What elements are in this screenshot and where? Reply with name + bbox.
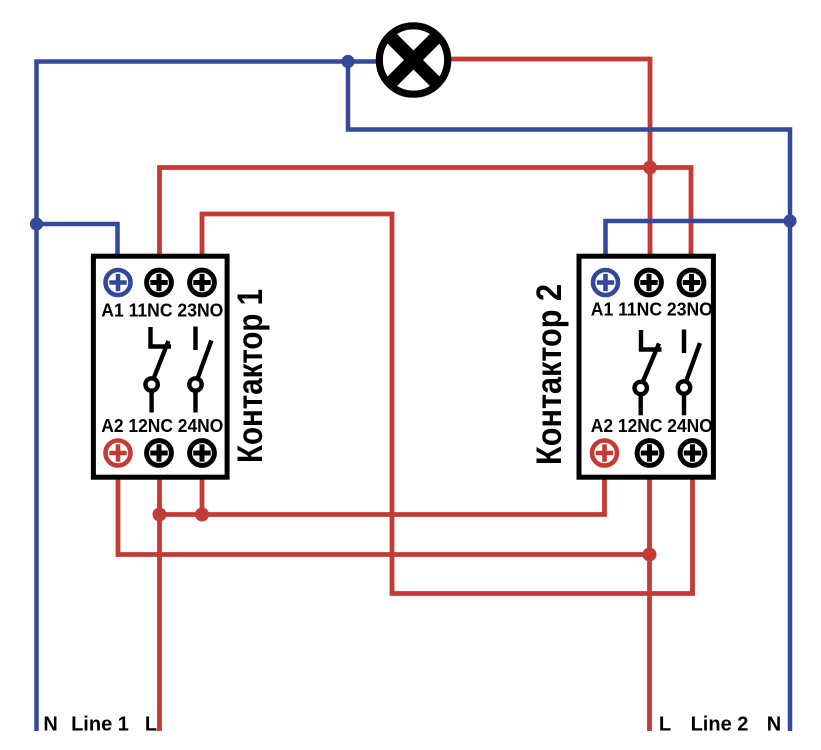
terminal 12NC K1 xyxy=(147,441,172,466)
node: L junction under K1 12NC xyxy=(153,508,167,522)
NO contact switch K2 xyxy=(678,330,700,416)
svg-text:Контактор 1: Контактор 1 xyxy=(231,289,270,463)
node: N junction left rail xyxy=(30,217,43,230)
wire L: 23NO of K1 to 24NO of K2 xyxy=(202,214,693,594)
svg-text:A2 12NC 24NO: A2 12NC 24NO xyxy=(591,416,713,436)
wire L: 12NC of K1 down to Line1 L xyxy=(157,477,162,731)
wire L: cross rail to 11NC of K1 xyxy=(160,168,651,257)
svg-text:A1 11NC 23NO: A1 11NC 23NO xyxy=(101,300,223,320)
wire N: lamp bypass down-right to Line2 N xyxy=(348,62,790,732)
terminal 12NC K2 xyxy=(637,441,662,466)
lamp HL1 xyxy=(379,26,447,94)
svg-text:Line 2: Line 2 xyxy=(691,714,749,736)
wire L: 12NC of K2 down to Line2 L xyxy=(647,477,652,731)
svg-text:Контактор 2: Контактор 2 xyxy=(530,284,569,465)
node: N junction right rail xyxy=(783,214,796,227)
wire N: left rail from Line1 N up and right to lamp xyxy=(37,62,377,732)
node: L junction under K1 24NO xyxy=(195,508,209,522)
node: L junction under K2 12NC xyxy=(643,548,657,562)
terminal 11NC K2 xyxy=(637,270,662,295)
svg-text:L: L xyxy=(145,714,157,736)
svg-text:A2 12NC 24NO: A2 12NC 24NO xyxy=(101,416,223,436)
svg-text:Line 1: Line 1 xyxy=(71,714,129,736)
NO contact switch K1 xyxy=(189,327,211,413)
terminal A2 K2 xyxy=(592,441,617,466)
wire L: A2 of K1 to 12NC of K2 xyxy=(118,477,650,555)
terminal 23NO K2 xyxy=(679,270,704,295)
terminal A2 K1 xyxy=(106,441,131,466)
wire N: branch to A1 of K2 xyxy=(606,221,791,256)
terminal 11NC K1 xyxy=(147,270,172,295)
wire N: branch to A1 of K1 xyxy=(37,224,118,256)
svg-text:A1 11NC 23NO: A1 11NC 23NO xyxy=(591,300,713,320)
terminal 24NO K1 xyxy=(190,441,215,466)
svg-text:L: L xyxy=(659,714,671,736)
wire L: lamp right down to 11NC of K2 xyxy=(450,59,650,256)
node: L junction top xyxy=(643,161,657,175)
wire L: branch to 23NO of K2 xyxy=(650,168,691,257)
terminal 24NO K2 xyxy=(680,441,705,466)
NC contact switch K1 xyxy=(145,327,171,413)
terminal A1 K2 xyxy=(593,270,618,295)
wire L: 24NO of K1 stub down xyxy=(200,477,205,515)
contactor K2 box xyxy=(579,256,713,477)
NC contact switch K2 xyxy=(635,330,662,415)
contactor K1 box xyxy=(93,256,227,477)
node: N junction at lamp left xyxy=(341,55,354,68)
svg-text:N: N xyxy=(767,714,781,736)
wire L: rail to A2 of K2 xyxy=(160,477,605,515)
terminal A1 K1 xyxy=(106,270,131,295)
terminal 23NO K1 xyxy=(190,270,215,295)
svg-text:N: N xyxy=(43,714,57,736)
